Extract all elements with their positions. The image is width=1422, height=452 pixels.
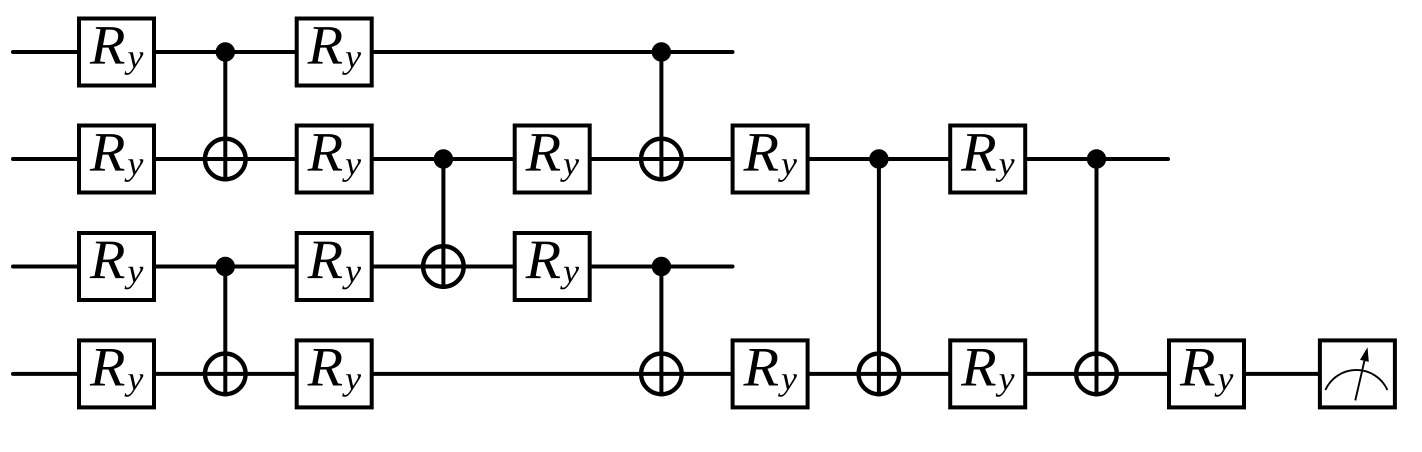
wire control-line col1 q2-q3: [223, 267, 227, 397]
gate Ry3 (qubit 1, col 0): [79, 126, 154, 193]
gate Ry13 (qubit 3, col 6): [733, 340, 808, 407]
gate Ry5 (qubit 1, col 4): [515, 126, 590, 193]
control dot col9 q1: [1087, 149, 1106, 168]
measurement gate M1 (qubit 3): [1320, 340, 1395, 407]
wire control-line col5 q2-q3: [659, 267, 663, 397]
wire control-line col7 q1-q3: [877, 159, 881, 396]
CNOT target col5 q1: [641, 139, 682, 180]
gate Ry7 (qubit 1, col 8): [950, 126, 1025, 193]
wire control-line col1 q0-q1: [223, 52, 227, 182]
control dot col3 q1: [434, 149, 453, 168]
gate Ry11 (qubit 3, col 0): [79, 340, 154, 407]
wire q1: [13, 157, 1168, 161]
gate Ry2 (qubit 0, col 2): [297, 19, 372, 86]
control dot col1 q2: [216, 257, 235, 276]
CNOT target col9 q3: [1076, 354, 1117, 395]
CNOT target col3 q2: [423, 246, 464, 287]
control dot col5 q0: [652, 42, 671, 61]
wire control-line col9 q1-q3: [1095, 159, 1099, 396]
gate Ry12 (qubit 3, col 2): [297, 340, 372, 407]
wire q3: [13, 372, 1321, 376]
gate Ry6 (qubit 1, col 6): [733, 126, 808, 193]
wire q0: [13, 50, 733, 54]
control dot col5 q2: [652, 257, 671, 276]
CNOT target col1 q1: [205, 139, 246, 180]
gate Ry14 (qubit 3, col 8): [950, 340, 1025, 407]
wire q2: [13, 265, 733, 269]
control dot col7 q1: [869, 149, 888, 168]
gate Ry8 (qubit 2, col 0): [79, 233, 154, 300]
CNOT target col1 q3: [205, 354, 246, 395]
wire control-line col3 q1-q2: [441, 159, 445, 289]
gate Ry9 (qubit 2, col 2): [297, 233, 372, 300]
control dot col1 q0: [216, 42, 235, 61]
wire control-line col5 q0-q1: [659, 52, 663, 182]
gate Ry10 (qubit 2, col 4): [515, 233, 590, 300]
CNOT target col7 q3: [859, 354, 900, 395]
gate Ry1 (qubit 0, col 0): [79, 19, 154, 86]
gate Ry4 (qubit 1, col 2): [297, 126, 372, 193]
gate Ry15 (qubit 3, col 10): [1169, 340, 1244, 407]
CNOT target col5 q3: [641, 354, 682, 395]
